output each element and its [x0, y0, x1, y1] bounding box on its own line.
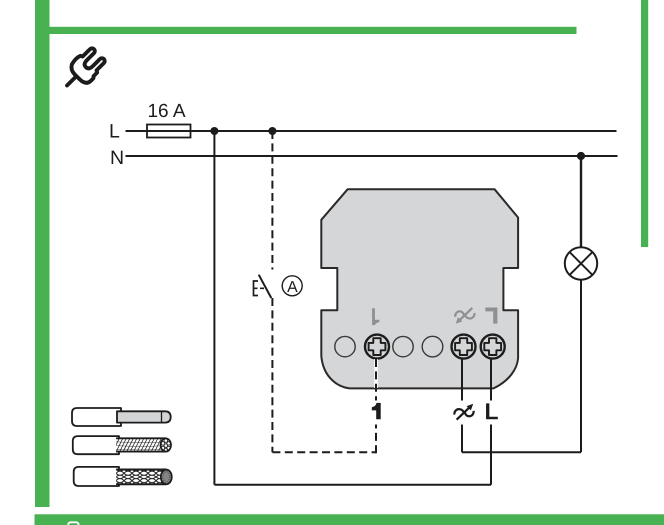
lamp E1	[565, 247, 597, 279]
svg-text:N: N	[110, 147, 124, 169]
device body (flush-mount dimmer mechanism, rear view)	[321, 189, 518, 388]
svg-text:16 A: 16 A	[147, 101, 185, 122]
plug icon	[67, 45, 108, 86]
wire: below lamp	[580, 280, 582, 453]
wire N line	[126, 155, 618, 157]
wire: up to terminal X (below label)	[461, 425, 463, 453]
cable illustration: stranded wire	[73, 436, 173, 454]
svg-text:L: L	[484, 398, 498, 424]
terminal hole (plain, 2nd)	[393, 336, 413, 356]
svg-text:L: L	[109, 120, 120, 142]
wire: up to terminal L (below label)	[490, 425, 492, 485]
wire stub: terminal 1 to label (dashed over white casing)	[374, 359, 378, 401]
printed glyph 1 (upside down, gray)	[372, 308, 379, 325]
terminal hole (plain, 1st)	[335, 336, 355, 356]
switch label A (circled)	[282, 276, 302, 296]
junction dot on N	[577, 152, 585, 160]
printed glyph L (upside down, gray)	[485, 308, 497, 324]
wire: lamp branch from N	[580, 156, 582, 247]
wire L line	[126, 130, 617, 132]
cable illustration: fine stranded wire	[74, 467, 172, 486]
cable illustration: solid core wire	[72, 408, 171, 426]
wire: dashed horizontal to terminal 1	[272, 451, 376, 453]
switch push-button actuator	[254, 281, 265, 296]
junction dot on L (left)	[210, 127, 218, 135]
wire: dashed below switch	[271, 298, 273, 452]
svg-text:A: A	[287, 279, 298, 296]
wire stub: terminal L to label	[490, 359, 492, 401]
terminal screw 1	[365, 335, 389, 359]
terminal label 1	[372, 403, 381, 419]
junction dot on L (right)	[268, 127, 276, 135]
wire: dashed switch branch from L	[271, 131, 273, 270]
terminal screw L	[481, 335, 505, 359]
printed dimmer glyph (upside down, gray)	[455, 308, 474, 324]
wire stub: terminal X to label	[461, 359, 463, 401]
wire: dashed up to terminal 1 (below label)	[375, 425, 377, 454]
wire: horizontal lamp to terminal X	[462, 451, 581, 453]
terminal label X (dimmer symbol)	[454, 404, 473, 420]
terminal hole (plain, 3rd)	[422, 336, 443, 357]
wire: L branch down-left vertical	[213, 131, 215, 485]
switch S blade	[259, 275, 272, 298]
terminal screw X	[452, 335, 476, 359]
fuse F1	[147, 125, 191, 138]
wire: bottom horizontal to terminal L	[214, 484, 491, 486]
